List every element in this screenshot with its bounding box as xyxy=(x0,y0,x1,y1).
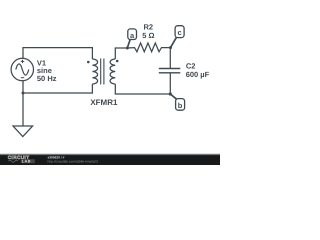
wire bottom-left primary to V1 and ground xyxy=(23,84,92,93)
svg-text:LAB: LAB xyxy=(22,160,31,164)
transformer XFMR1 primary coil xyxy=(92,59,97,84)
svg-text:c: c xyxy=(178,28,182,37)
wire V1 bottom lead xyxy=(22,81,24,126)
node c box xyxy=(175,26,184,38)
junction dot node c xyxy=(169,46,172,49)
node a box xyxy=(128,29,137,40)
junction dot node b xyxy=(169,92,172,95)
node c pointer xyxy=(171,37,177,47)
transformer XFMR1 secondary coil xyxy=(110,59,115,84)
transformer secondary phase dot xyxy=(116,60,119,63)
svg-text:b: b xyxy=(178,101,183,110)
svg-text:600 µF: 600 µF xyxy=(186,70,210,79)
watermark bar xyxy=(0,153,220,155)
transformer core lines xyxy=(101,59,104,85)
node b pointer xyxy=(170,94,176,99)
voltage source V1 circle xyxy=(11,58,33,80)
capacitor C2 top lead xyxy=(169,48,171,69)
watermark logo LAB box xyxy=(21,159,35,163)
junction dot V1 bottom xyxy=(22,92,25,95)
watermark logo squiggle xyxy=(8,160,18,162)
resistor R2 zigzag xyxy=(127,43,170,52)
svg-text:http://circuitlab.com/c/j6kb-k: http://circuitlab.com/c/j6kb-kmyhzh2 xyxy=(48,159,99,163)
wire bottom-right secondary to node b junction xyxy=(115,84,170,94)
svg-text:5 Ω: 5 Ω xyxy=(142,31,154,40)
junction dot node a xyxy=(126,47,129,50)
svg-text:50 Hz: 50 Hz xyxy=(37,74,57,83)
ground symbol xyxy=(13,126,33,137)
V1 sine wave xyxy=(16,64,29,75)
V1 plus sign xyxy=(21,60,24,63)
svg-text:C2: C2 xyxy=(186,61,196,70)
node a pointer xyxy=(127,39,130,48)
V1 minus sign xyxy=(21,77,24,79)
wire top-left from V1 to transformer primary xyxy=(23,48,92,59)
transformer primary phase dot xyxy=(87,61,90,64)
watermark logo CIRCUIT LAB xyxy=(8,155,98,164)
wire secondary top to node a xyxy=(115,48,127,59)
capacitor C2 bottom lead xyxy=(169,73,171,94)
svg-text:XFMR1: XFMR1 xyxy=(90,98,118,107)
capacitor C2 plates xyxy=(159,69,181,73)
node b box xyxy=(176,99,185,111)
